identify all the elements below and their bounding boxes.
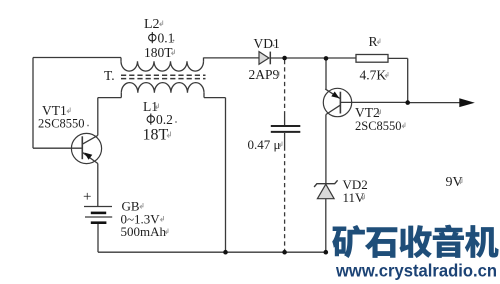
wire VT1 base lead	[33, 147, 82, 149]
svg-text:2AP9: 2AP9	[249, 67, 280, 82]
svg-text:2SC8550: 2SC8550	[355, 119, 402, 133]
small dot after phi 0.2	[175, 121, 177, 123]
small dot after VD1	[273, 45, 275, 47]
zener diode VD2	[314, 180, 338, 187]
wire VD1 to R	[270, 57, 356, 59]
return marks decorative	[67, 21, 462, 234]
wire VT2 collector down to VD2	[325, 115, 327, 184]
svg-text:180T: 180T	[144, 45, 173, 60]
svg-text:0.47 μ: 0.47 μ	[248, 137, 281, 152]
label phi 0.2	[147, 114, 154, 125]
wire VD2 anode to rail	[325, 199, 327, 253]
diode VD1	[259, 52, 269, 65]
watermark char 收	[399, 225, 432, 258]
wire VT2 base lead	[340, 101, 407, 103]
watermark char 矿	[332, 225, 365, 258]
wire L1 right lead down	[204, 97, 226, 99]
wire top to VD1	[204, 57, 260, 59]
wire R right to output junction	[388, 57, 408, 59]
arrow VT1 emitter (PNP inward)	[84, 153, 92, 160]
transistor VT2	[323, 88, 351, 116]
inductor L1 winding	[121, 83, 204, 93]
svg-text:18T: 18T	[143, 127, 169, 144]
junction node VD1/R/VT2	[324, 56, 329, 61]
svg-text:VT2: VT2	[355, 105, 380, 120]
svg-text:4.7K: 4.7K	[360, 68, 387, 83]
junction node rail cap	[282, 250, 287, 255]
wire left vertical	[32, 58, 34, 149]
capacitor dashed link bottom	[284, 147, 286, 253]
capacitor C plates	[271, 125, 301, 127]
wire L1 left lead to VT1 collector	[98, 97, 122, 99]
small dot after 2SC8550	[87, 125, 89, 127]
svg-text:www.crystalradio.cn: www.crystalradio.cn	[335, 261, 497, 281]
svg-text:R: R	[369, 34, 378, 49]
watermark char 机	[465, 225, 499, 258]
arrowhead output	[459, 98, 475, 107]
wire battery to rail	[97, 224, 99, 252]
wire VT1 emitter down	[97, 164, 99, 207]
arrow VT2 emitter (PNP inward)	[331, 92, 339, 99]
wire bottom rail	[98, 251, 326, 253]
svg-text:+: +	[83, 189, 91, 205]
svg-text:0.2: 0.2	[156, 112, 173, 127]
transistor VT1	[71, 133, 101, 163]
inductor L2 winding	[120, 58, 122, 62]
svg-text:VD1: VD1	[254, 36, 280, 51]
junction node output	[405, 100, 410, 105]
svg-text:0.1: 0.1	[158, 31, 175, 46]
wire VD1 node down to VT2 emitter	[325, 58, 327, 89]
wire top left horizontal	[33, 57, 121, 59]
svg-text:11V: 11V	[343, 190, 366, 205]
svg-text:2SC8550: 2SC8550	[38, 117, 85, 131]
resistor R box	[356, 55, 388, 63]
label phi 0.1	[149, 32, 156, 43]
watermark char 音	[433, 225, 464, 258]
wire output line	[408, 102, 460, 104]
transformer core dashed lines	[121, 74, 206, 76]
svg-text:500mAh: 500mAh	[121, 224, 167, 239]
capacitor dashed link top	[284, 60, 286, 115]
junction node rail VD2	[324, 250, 329, 255]
battery GB plates	[84, 206, 112, 208]
svg-text:T.: T.	[104, 68, 115, 83]
junction node after VD1	[282, 56, 287, 61]
junction node rail L1	[223, 250, 228, 255]
watermark char 石	[365, 227, 397, 258]
small dot after phi 0.1	[173, 40, 175, 42]
